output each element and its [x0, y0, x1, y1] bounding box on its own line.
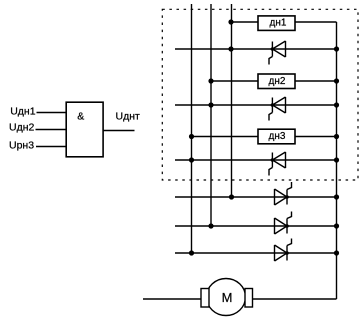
wire row дн2 right: [295, 80, 337, 82]
node bus1-row160: [189, 157, 194, 162]
thyristor VS3: [269, 152, 286, 176]
block дн3: [258, 129, 295, 144]
node bus3-rowA: [229, 194, 234, 199]
motor M circle: [207, 279, 246, 316]
node right-row49: [334, 46, 339, 51]
node bus2-rowB: [208, 223, 213, 228]
node right-row136: [334, 134, 339, 139]
bus 3 (x=231.5): [231, 4, 233, 197]
wire row дн1 right: [295, 21, 337, 23]
node bus2-row105: [208, 102, 213, 107]
wire power row B: [175, 225, 337, 227]
dotted enclosure box: [162, 9, 358, 180]
svg-text:Uрн3: Uрн3: [9, 140, 34, 152]
wire row дн3 right: [295, 136, 337, 138]
node right-row105: [334, 102, 339, 107]
wire motor right: [253, 298, 337, 300]
node bus3-row49: [228, 46, 233, 51]
svg-text:дн1: дн1: [270, 18, 287, 29]
AND gate U1 box: [66, 102, 103, 157]
wire row дн1 left: [232, 21, 259, 23]
motor brush right: [245, 289, 253, 308]
node right-rowC: [334, 250, 339, 255]
svg-text:M: M: [222, 290, 233, 305]
svg-text:Uднт: Uднт: [116, 111, 141, 123]
bus 1 (x=191.5): [191, 4, 193, 253]
svg-text:Uдн2: Uдн2: [9, 122, 35, 134]
node right-row160: [334, 157, 339, 162]
node right-row81: [334, 78, 339, 83]
node bus3-дн1: [228, 19, 233, 24]
wire thyristor row 1: [175, 48, 337, 50]
node right-rowB: [334, 223, 339, 228]
right bus (x=336.5): [336, 22, 338, 299]
wire input 3: [36, 146, 67, 148]
wire thyristor row 3: [175, 159, 337, 161]
bus 2 (x=211): [210, 4, 212, 226]
thyristor VS1: [269, 41, 286, 65]
wire output: [103, 130, 135, 132]
wire thyristor row 2: [175, 104, 337, 106]
thyristor VS2: [269, 97, 286, 121]
wire row дн3 left: [192, 136, 259, 138]
motor brush left: [201, 289, 209, 308]
node bus2-дн2: [208, 78, 213, 83]
block дн1: [258, 16, 295, 31]
wire motor left: [143, 298, 201, 300]
svg-text:дн3: дн3: [269, 131, 286, 142]
wire row дн2 left: [211, 80, 258, 82]
wire input 1: [37, 112, 67, 114]
thyristor VS4: [275, 182, 292, 205]
wire power row C: [175, 252, 337, 254]
node bus1-rowC: [189, 250, 194, 255]
svg-text:Uдн1: Uдн1: [10, 106, 36, 118]
wire input 2: [36, 129, 67, 131]
svg-text:дн2: дн2: [269, 76, 286, 87]
svg-text:&: &: [77, 111, 84, 123]
thyristor VS5: [275, 212, 292, 235]
wire power row A: [175, 196, 337, 198]
node right-rowA: [334, 194, 339, 199]
node bus1-дн3: [189, 134, 194, 139]
thyristor VS6: [275, 239, 292, 262]
block дн2: [258, 74, 295, 89]
